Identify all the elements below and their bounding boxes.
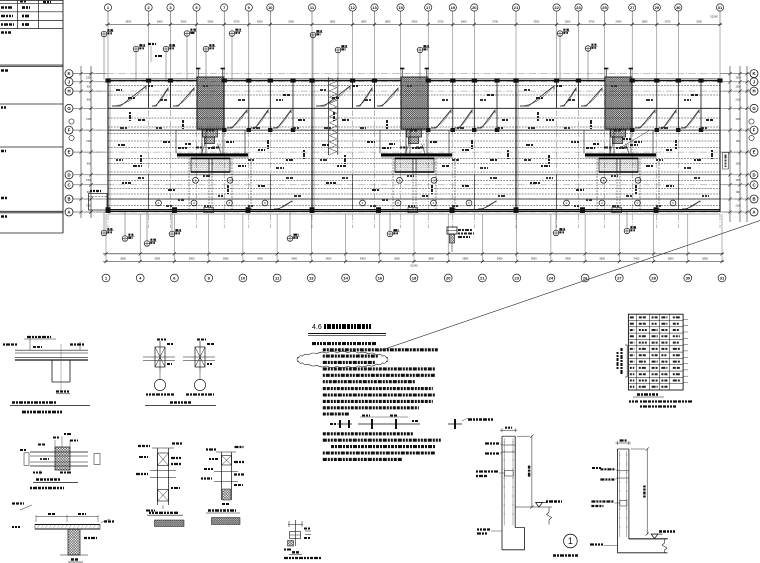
svg-text:2800: 2800 [428,256,434,260]
svg-text:20: 20 [446,276,451,281]
svg-text:1800: 1800 [385,19,391,23]
svg-text:2700: 2700 [438,19,444,23]
svg-text:30: 30 [676,5,681,10]
svg-text:25: 25 [602,5,607,10]
svg-text:B: B [67,197,70,202]
svg-text:C: C [752,182,755,187]
svg-text:28: 28 [651,276,656,281]
svg-text:2400: 2400 [616,19,622,23]
svg-text:19: 19 [451,5,456,10]
svg-text:2700: 2700 [86,205,92,208]
svg-text:A: A [752,210,755,215]
svg-text:1500: 1500 [86,118,92,121]
svg-text:27: 27 [630,5,635,10]
svg-text:17: 17 [426,5,431,10]
svg-text:2800: 2800 [462,256,468,260]
svg-text:1500: 1500 [735,78,741,80]
svg-text:2800: 2800 [702,256,708,260]
svg-text:900: 900 [87,99,92,102]
svg-text:23: 23 [576,5,581,10]
svg-text:29: 29 [655,5,660,10]
svg-text:27: 27 [617,276,622,281]
svg-text:2100: 2100 [86,140,92,143]
svg-text:3600: 3600 [326,256,332,260]
svg-text:1: 1 [568,536,573,546]
svg-text:13: 13 [309,276,314,281]
svg-text:3400: 3400 [291,256,297,260]
svg-text:E: E [753,150,756,155]
svg-text:3700: 3700 [589,19,595,23]
svg-text:2400: 2400 [461,19,467,23]
svg-text:3400: 3400 [565,256,571,260]
svg-text:10: 10 [241,276,246,281]
svg-text:2400: 2400 [157,19,163,23]
svg-text:A: A [67,210,70,215]
svg-text:2700: 2700 [665,19,671,23]
svg-text:1800: 1800 [642,19,648,23]
svg-text:2800: 2800 [394,256,400,260]
svg-text:21: 21 [514,5,519,10]
svg-text:1500: 1500 [86,179,92,182]
svg-text:14: 14 [343,276,348,281]
svg-text:18: 18 [412,276,417,281]
svg-text:3300: 3300 [207,19,213,23]
svg-text:24: 24 [549,276,554,281]
svg-text:2800: 2800 [120,256,126,260]
svg-text:1800: 1800 [361,19,367,23]
svg-text:31: 31 [718,5,723,10]
svg-text:C: C [67,182,70,187]
svg-text:3400: 3400 [634,256,640,260]
svg-text:H: H [752,89,755,94]
svg-text:E: E [68,150,71,155]
svg-text:3700: 3700 [234,19,240,23]
svg-text:31: 31 [720,276,725,281]
svg-text:1500: 1500 [735,180,741,182]
svg-text:22: 22 [554,5,559,10]
svg-text:1500: 1500 [696,19,702,23]
svg-text:23: 23 [514,276,519,281]
svg-text:3300: 3300 [257,19,263,23]
svg-text:3600: 3600 [531,256,537,260]
svg-text:13: 13 [372,5,377,10]
svg-text:2800: 2800 [668,256,674,260]
svg-text:F: F [753,128,756,133]
svg-text:3400: 3400 [497,256,503,260]
svg-text:1800: 1800 [329,19,335,23]
svg-text:30: 30 [686,276,691,281]
svg-text:3400: 3400 [360,256,366,260]
svg-text:1500: 1500 [86,77,92,80]
svg-text:3300: 3300 [533,19,539,23]
svg-text:10: 10 [268,5,273,10]
svg-text:51240: 51240 [710,15,718,19]
svg-text:3000: 3000 [189,256,195,260]
svg-text:3300: 3300 [181,19,187,23]
svg-text:3000: 3000 [154,256,160,260]
svg-text:1500: 1500 [565,19,571,23]
svg-text:21: 21 [480,276,485,281]
svg-text:D: D [67,172,70,177]
svg-text:3300: 3300 [412,19,418,23]
svg-text:F: F [68,128,71,133]
svg-text:1500: 1500 [735,119,741,121]
svg-text:51240: 51240 [410,264,418,268]
svg-text:2100: 2100 [735,206,741,208]
svg-text:900: 900 [87,162,92,165]
svg-text:3400: 3400 [257,256,263,260]
svg-text:B: B [752,197,755,202]
svg-text:900: 900 [87,85,92,88]
svg-text:12: 12 [350,5,355,10]
svg-text:4.6: 4.6 [312,324,322,331]
svg-text:1500: 1500 [735,86,741,88]
svg-text:H: H [67,89,70,94]
svg-text:1500: 1500 [735,163,741,165]
svg-text:D: D [752,172,755,177]
svg-text:2700: 2700 [492,19,498,23]
svg-text:3600: 3600 [599,256,605,260]
svg-text:2400: 2400 [125,19,131,23]
svg-text:2800: 2800 [223,256,229,260]
svg-text:16: 16 [378,276,383,281]
svg-text:2400: 2400 [288,19,294,23]
svg-text:15: 15 [398,5,403,10]
svg-text:2100: 2100 [735,100,741,102]
svg-text:20: 20 [472,5,477,10]
